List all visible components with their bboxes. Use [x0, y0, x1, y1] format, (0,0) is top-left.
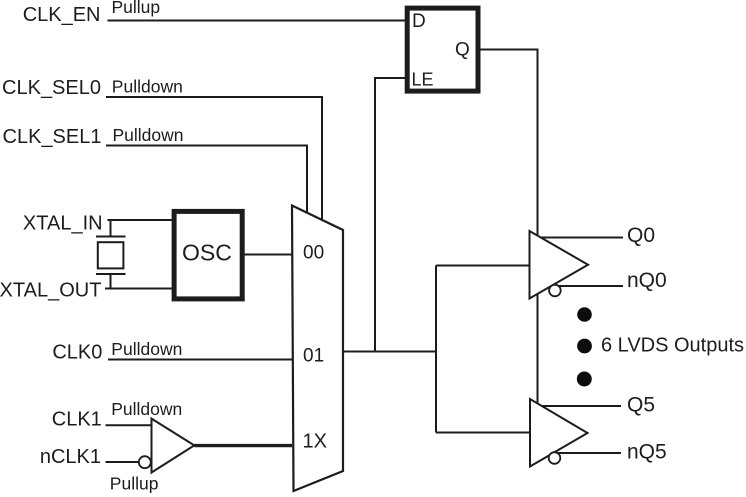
input buffer nCLK1 inversion bubble	[139, 456, 151, 468]
wire Q5 output	[542, 405, 622, 407]
wire latch Q output enable line	[480, 50, 538, 405]
crystal top plate	[96, 236, 126, 238]
crystal bottom plate	[96, 273, 126, 275]
svg-text:Pullup: Pullup	[112, 0, 161, 17]
wire CLK_SEL1 to mux select	[106, 146, 307, 214]
ellipsis dot 2	[577, 339, 592, 354]
svg-text:6 LVDS Outputs: 6 LVDS Outputs	[601, 335, 744, 357]
input buffer triangle	[152, 419, 195, 473]
svg-text:CLK_SEL0: CLK_SEL0	[2, 77, 101, 99]
wire Q0 output	[541, 237, 624, 239]
wire crystal top lead	[110, 220, 112, 237]
wire mux output to latch LE input	[375, 78, 406, 352]
svg-text:Q0: Q0	[627, 224, 655, 247]
svg-text:Pulldown: Pulldown	[112, 77, 183, 97]
svg-text:CLK0: CLK0	[52, 342, 102, 364]
svg-text:D: D	[412, 11, 426, 32]
LVDS output buffer 1	[530, 231, 589, 299]
latch U1	[407, 8, 478, 91]
wire fanout to LVDS buffer 1	[436, 265, 530, 267]
ellipsis dot 1	[577, 307, 592, 322]
wire mux output	[343, 351, 436, 353]
svg-text:Pulldown: Pulldown	[111, 339, 182, 359]
wire OSC output to mux input 00	[244, 254, 292, 256]
wire CLK1 to input buffer	[106, 424, 152, 426]
svg-text:Pulldown: Pulldown	[111, 399, 182, 419]
wire fanout vertical	[435, 266, 437, 433]
wire nQ0 output	[556, 285, 623, 287]
svg-text:Pullup: Pullup	[110, 473, 159, 493]
svg-text:LE: LE	[412, 70, 434, 90]
wire nCLK1 to input buffer bubble	[106, 461, 140, 463]
wire thick buffer output to mux input 1X	[194, 444, 292, 447]
wire fanout to LVDS buffer 2	[436, 432, 530, 434]
svg-text:nQ0: nQ0	[627, 269, 667, 292]
svg-text:XTAL_OUT: XTAL_OUT	[0, 279, 101, 301]
mux	[292, 206, 343, 492]
LVDS output buffer 2	[530, 399, 588, 467]
svg-text:1X: 1X	[303, 431, 327, 453]
svg-text:CLK_EN: CLK_EN	[23, 4, 101, 26]
wire XTAL_OUT to OSC	[105, 288, 173, 290]
svg-text:nCLK1: nCLK1	[40, 446, 101, 468]
ellipsis dot 3	[577, 372, 592, 387]
oscillator OSC box	[174, 211, 242, 299]
wire nQ5 output	[556, 452, 621, 454]
svg-text:XTAL_IN: XTAL_IN	[23, 212, 103, 234]
svg-text:Q5: Q5	[627, 394, 655, 417]
wire XTAL_IN to OSC	[108, 219, 174, 221]
svg-text:00: 00	[303, 243, 324, 264]
wire crystal bottom lead	[110, 274, 112, 289]
wire CLK_SEL0 to mux select	[106, 97, 322, 221]
wire CLK0 to mux input 01	[108, 359, 292, 361]
buffer 1 inversion bubble	[549, 285, 561, 297]
buffer 2 inversion bubble	[549, 452, 561, 464]
svg-text:01: 01	[303, 346, 324, 367]
svg-text:Q: Q	[455, 40, 470, 61]
svg-text:OSC: OSC	[182, 240, 232, 266]
svg-text:nQ5: nQ5	[627, 441, 667, 464]
svg-text:CLK_SEL1: CLK_SEL1	[3, 126, 102, 148]
crystal body X1	[98, 242, 124, 268]
svg-text:Pulldown: Pulldown	[113, 125, 184, 145]
svg-text:CLK1: CLK1	[52, 409, 102, 431]
wire CLK_EN to latch D input	[108, 20, 407, 22]
